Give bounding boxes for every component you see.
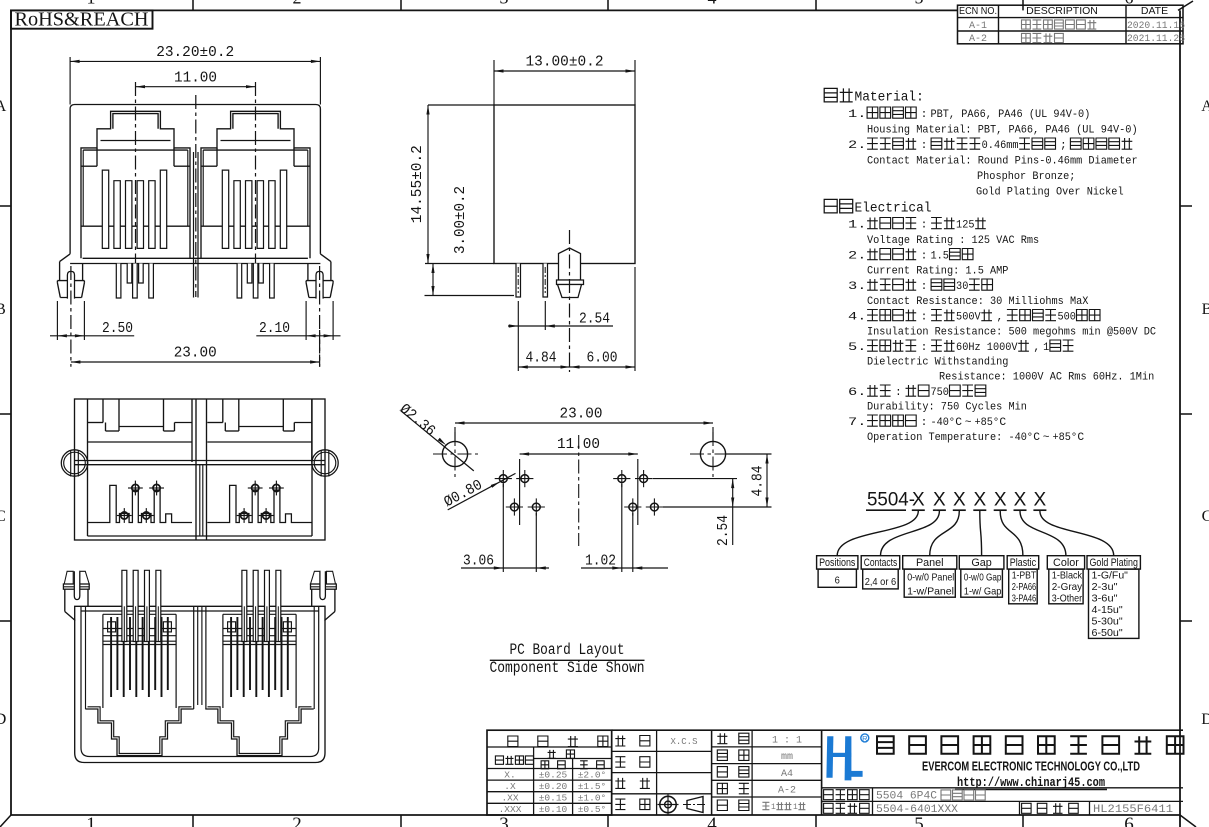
svg-text:X.C.S: X.C.S xyxy=(670,737,697,747)
svg-text:2.: 2. xyxy=(848,140,866,152)
svg-text:6.00: 6.00 xyxy=(587,350,618,367)
svg-text:4.84: 4.84 xyxy=(526,350,557,367)
dim 2.50 xyxy=(56,301,58,340)
svg-text:°C: °C xyxy=(1027,432,1041,444)
svg-text:,: , xyxy=(1033,342,1040,354)
dim 2.10 xyxy=(305,301,307,340)
svg-text:D: D xyxy=(1201,711,1209,728)
option box Gold Plating xyxy=(1087,556,1140,569)
svg-text:2,4 or 6: 2,4 or 6 xyxy=(865,577,897,588)
svg-text:1: 1 xyxy=(86,814,96,827)
svg-text:23.20±0.2: 23.20±0.2 xyxy=(156,44,234,61)
jack opening xyxy=(201,111,310,258)
svg-text::: : xyxy=(921,342,928,354)
svg-text:Voltage Rating : 125 VAC Rms: Voltage Rating : 125 VAC Rms xyxy=(867,235,1039,247)
svg-text:60Hz 1000V: 60Hz 1000V xyxy=(956,342,1018,354)
dim 14.55±0.2 xyxy=(428,104,494,106)
svg-text:Gap: Gap xyxy=(971,557,991,569)
svg-text:3.: 3. xyxy=(848,281,866,293)
svg-text:~: ~ xyxy=(965,417,972,429)
company name xyxy=(877,736,894,753)
svg-text:1.5: 1.5 xyxy=(930,251,949,263)
svg-text:1: 1 xyxy=(793,803,798,812)
svg-text:2.10: 2.10 xyxy=(259,320,290,337)
svg-text:EVERCOM ELECTRONIC TECHNOLOGY: EVERCOM ELECTRONIC TECHNOLOGY CO.,LTD xyxy=(922,760,1140,774)
svg-text:5: 5 xyxy=(915,0,924,8)
svg-text:.X: .X xyxy=(504,781,516,792)
svg-text:0-w/0 Gap: 0-w/0 Gap xyxy=(964,572,1002,583)
svg-text:750: 750 xyxy=(930,387,949,399)
svg-text:A-2: A-2 xyxy=(969,34,987,45)
scale column xyxy=(751,730,753,815)
title block xyxy=(487,730,1184,816)
svg-text::: : xyxy=(921,109,928,121)
option box Positions xyxy=(817,556,858,569)
svg-text:3-PA46: 3-PA46 xyxy=(1012,593,1037,604)
svg-text:2-3u": 2-3u" xyxy=(1092,582,1118,593)
svg-text:Housing Material: PBT, PA66, P: Housing Material: PBT, PA66, PA46 (UL 94… xyxy=(867,125,1138,137)
svg-text:2: 2 xyxy=(293,0,302,8)
svg-text:2021.11.28: 2021.11.28 xyxy=(1127,33,1185,45)
svg-text:PBT, PA66, PA46 (UL 94V-0): PBT, PA66, PA46 (UL 94V-0) xyxy=(930,109,1090,121)
mounting hole left xyxy=(442,441,467,466)
svg-text::: : xyxy=(921,140,928,152)
side view xyxy=(409,54,635,372)
svg-text:5: 5 xyxy=(914,814,924,827)
svg-text:3.00±0.2: 3.00±0.2 xyxy=(452,186,469,254)
svg-text:±0.20: ±0.20 xyxy=(539,781,568,792)
option box Plastic xyxy=(1007,556,1038,569)
svg-text::: : xyxy=(921,312,928,324)
svg-text:1: 1 xyxy=(771,803,776,812)
svg-text:http://www.chinarj45.com: http://www.chinarj45.com xyxy=(957,775,1105,790)
svg-text:Phosphor Bronze;: Phosphor Bronze; xyxy=(977,171,1075,183)
mounting leg xyxy=(59,262,61,281)
svg-text:4: 4 xyxy=(707,814,717,827)
svg-text:11.00: 11.00 xyxy=(174,69,217,86)
svg-text:1: 1 xyxy=(87,0,96,8)
svg-text:0-w/0 Panel: 0-w/0 Panel xyxy=(907,572,954,583)
svg-text::: : xyxy=(921,220,928,232)
dim 2.54 pcb xyxy=(653,478,738,480)
jack opening xyxy=(81,111,190,258)
svg-text:X: X xyxy=(1034,490,1047,511)
board pins xyxy=(516,264,521,298)
svg-text::: : xyxy=(895,387,902,399)
svg-text:1-w/Panel: 1-w/Panel xyxy=(907,586,954,597)
svg-text:2.54: 2.54 xyxy=(715,515,732,546)
svg-text:3: 3 xyxy=(499,814,509,827)
bottom view contact comb xyxy=(88,485,193,522)
rear wire pins xyxy=(122,570,127,641)
option box Color xyxy=(1047,556,1084,569)
svg-text:Dielectric Withstanding: Dielectric Withstanding xyxy=(867,357,1008,369)
svg-text:3.06: 3.06 xyxy=(463,552,494,569)
svg-text:Insulation Resistance: 500 meg: Insulation Resistance: 500 megohms min @… xyxy=(867,327,1156,339)
svg-text:.XX: .XX xyxy=(501,793,518,804)
svg-text:±0.15: ±0.15 xyxy=(539,793,568,804)
svg-text:X: X xyxy=(994,490,1007,511)
svg-text:6: 6 xyxy=(1124,814,1134,827)
svg-text:3-6u": 3-6u" xyxy=(1092,593,1118,604)
dim 3.00±0.2 xyxy=(425,295,515,297)
rear latch xyxy=(64,571,73,584)
leader dia 0.80 xyxy=(448,473,516,510)
svg-text:RoHS&REACH: RoHS&REACH xyxy=(15,10,149,31)
dim 2.54 xyxy=(517,301,519,330)
mounting leg xyxy=(330,262,332,281)
svg-text:X: X xyxy=(953,490,966,511)
svg-text:6: 6 xyxy=(835,576,841,587)
svg-text:2.54: 2.54 xyxy=(579,310,610,327)
svg-text:Durability: 750 Cycles Min: Durability: 750 Cycles Min xyxy=(867,402,1027,414)
option box Panel xyxy=(903,556,957,569)
svg-text:X: X xyxy=(1014,490,1027,511)
company block xyxy=(822,787,1183,789)
svg-text:0.46mm: 0.46mm xyxy=(982,140,1019,152)
svg-text:2.: 2. xyxy=(848,251,866,263)
rear latch xyxy=(327,571,336,584)
dim 23.00 pcb xyxy=(454,427,456,441)
svg-text:6-50u": 6-50u" xyxy=(1092,628,1124,639)
svg-text:5-30u": 5-30u" xyxy=(1092,617,1124,628)
svg-text:-40: -40 xyxy=(930,417,949,429)
svg-text::: : xyxy=(921,417,928,429)
solder tails xyxy=(116,264,121,299)
svg-text:1-w/ Gap: 1-w/ Gap xyxy=(964,586,1002,597)
svg-text:5.: 5. xyxy=(848,342,866,354)
svg-text:Resistance: 1000V AC Rms 60Hz.: Resistance: 1000V AC Rms 60Hz. 1Min xyxy=(939,372,1154,384)
svg-text:4-15u": 4-15u" xyxy=(1092,605,1124,616)
pc board layout xyxy=(396,401,771,572)
svg-text:Current Rating: 1.5 AMP: Current Rating: 1.5 AMP xyxy=(867,266,1009,278)
svg-text:A: A xyxy=(0,98,7,115)
snap-in post xyxy=(559,248,581,280)
svg-text:°C: °C xyxy=(1071,432,1085,444)
svg-text:X: X xyxy=(973,490,986,511)
svg-text:2.50: 2.50 xyxy=(102,320,133,337)
tolerance table xyxy=(487,730,612,815)
ECN revision table xyxy=(958,5,1186,45)
bottom view mounting bosses xyxy=(61,450,87,476)
svg-text:Panel: Panel xyxy=(916,557,944,569)
rear port recess xyxy=(223,613,296,615)
svg-text:1.: 1. xyxy=(848,220,866,232)
svg-text:1.: 1. xyxy=(848,109,866,121)
svg-text:1-G/Fu": 1-G/Fu" xyxy=(1092,570,1129,581)
rear bottom steps xyxy=(85,709,193,756)
rear bottom steps xyxy=(205,709,313,756)
bottom view port cavity steps xyxy=(222,399,224,423)
svg-text:mm: mm xyxy=(781,752,793,763)
svg-text:PC Board Layout: PC Board Layout xyxy=(510,641,625,659)
svg-text:ECN NO.: ECN NO. xyxy=(959,5,997,17)
svg-text:13.00±0.2: 13.00±0.2 xyxy=(526,54,604,71)
caption PC Board Layout xyxy=(490,641,645,677)
svg-text:3-Other: 3-Other xyxy=(1052,593,1083,604)
svg-text:1 : 1: 1 : 1 xyxy=(772,736,802,747)
svg-text:±1.0°: ±1.0° xyxy=(578,793,607,804)
svg-text:500V: 500V xyxy=(956,312,981,324)
svg-text:D: D xyxy=(0,711,6,728)
dim 13.00±0.2 xyxy=(493,60,495,105)
dim 4.84 and 6.00 xyxy=(517,330,519,371)
bottom view contact comb xyxy=(207,485,311,522)
svg-text:±0.5°: ±0.5° xyxy=(578,804,607,815)
svg-text:500: 500 xyxy=(1057,312,1076,324)
svg-text:5504 6P4C: 5504 6P4C xyxy=(876,790,937,802)
svg-text::: : xyxy=(921,251,928,263)
sign-off column xyxy=(612,729,1183,731)
svg-text:1-PBT: 1-PBT xyxy=(1012,570,1036,581)
svg-text:4.84: 4.84 xyxy=(750,466,767,497)
svg-text:°C: °C xyxy=(949,417,963,429)
svg-text:A-2: A-2 xyxy=(778,786,796,797)
svg-text:DESCRIPTION: DESCRIPTION xyxy=(1026,5,1098,17)
dim 23.00 xyxy=(71,361,320,363)
svg-text:~: ~ xyxy=(1043,432,1050,444)
svg-text:A4: A4 xyxy=(781,769,793,780)
svg-text:2-Gray: 2-Gray xyxy=(1052,582,1083,593)
svg-text:,: , xyxy=(996,312,1003,324)
svg-text:°C: °C xyxy=(993,417,1007,429)
mounting hole right xyxy=(700,441,725,466)
svg-text:125: 125 xyxy=(956,220,975,232)
svg-text:;: ; xyxy=(1060,140,1067,152)
svg-text:2: 2 xyxy=(292,814,302,827)
svg-text:.XXX: .XXX xyxy=(499,804,522,815)
svg-text:14.55±0.2: 14.55±0.2 xyxy=(409,145,426,223)
svg-text:5504-: 5504- xyxy=(867,490,915,511)
svg-text:±2.0°: ±2.0° xyxy=(578,769,607,780)
svg-text:Operation Temperature: -40: Operation Temperature: -40 xyxy=(867,432,1027,444)
svg-text:X: X xyxy=(933,490,946,511)
dim 4.84 pcb xyxy=(726,453,772,455)
option box Gap xyxy=(959,556,1004,569)
svg-text:X: X xyxy=(912,490,925,511)
svg-text:1: 1 xyxy=(1043,342,1049,354)
svg-text:+85: +85 xyxy=(1053,432,1072,444)
svg-text:Plastic: Plastic xyxy=(1010,557,1037,569)
svg-text:Positions: Positions xyxy=(819,557,856,569)
product number row xyxy=(824,803,834,813)
svg-text:3: 3 xyxy=(500,0,509,8)
svg-text:Component Side Shown: Component Side Shown xyxy=(490,659,645,677)
pin holes xyxy=(499,475,507,483)
RoHS&REACH label box xyxy=(11,10,153,31)
bottom view port cavity steps xyxy=(102,399,104,423)
svg-text:1-Black: 1-Black xyxy=(1052,570,1083,581)
svg-text:B: B xyxy=(1202,301,1209,318)
svg-text:4.: 4. xyxy=(848,312,866,324)
svg-text:23.00: 23.00 xyxy=(560,406,603,423)
rear port recess xyxy=(103,613,176,615)
svg-text:HL2155F6411: HL2155F6411 xyxy=(1093,804,1173,816)
dim 1.02 xyxy=(621,484,623,572)
product model row xyxy=(824,790,834,800)
projection symbol xyxy=(660,796,676,812)
svg-text:Contact Resistance: 30 Millioh: Contact Resistance: 30 Milliohms MaX xyxy=(867,296,1089,308)
svg-text:7.: 7. xyxy=(848,417,866,429)
dim 3.06 xyxy=(502,484,504,572)
svg-text:Gold Plating: Gold Plating xyxy=(1090,557,1138,569)
svg-text:Color: Color xyxy=(1053,557,1079,569)
HL logo xyxy=(826,736,862,780)
svg-text:Electrical: Electrical xyxy=(855,201,932,217)
svg-text:30: 30 xyxy=(956,281,968,293)
part number 5504-XXXXXXX decoder xyxy=(817,490,1141,640)
svg-text:2-PA66: 2-PA66 xyxy=(1012,582,1037,593)
svg-text:1.02: 1.02 xyxy=(585,552,616,569)
svg-text:Material:: Material: xyxy=(855,90,924,106)
svg-text:4: 4 xyxy=(708,0,717,8)
svg-text:A: A xyxy=(1201,98,1209,115)
svg-text:6.: 6. xyxy=(848,387,866,399)
dim 23.20±0.2 xyxy=(69,57,71,105)
dim 11.00 xyxy=(136,86,256,88)
rear view xyxy=(63,570,336,762)
svg-text:Gold Plating Over Nickel: Gold Plating Over Nickel xyxy=(976,187,1124,199)
svg-text:X.: X. xyxy=(504,769,515,780)
svg-text:±0.10: ±0.10 xyxy=(539,804,568,815)
svg-text:+85: +85 xyxy=(975,417,994,429)
bottom view xyxy=(61,399,338,540)
svg-text:DATE: DATE xyxy=(1141,5,1168,17)
svg-text::: : xyxy=(921,281,928,293)
leader dia 2.36 xyxy=(401,411,474,471)
dim 11.00 pcb xyxy=(519,459,521,525)
svg-text:C: C xyxy=(1202,508,1209,525)
svg-text:23.00: 23.00 xyxy=(174,344,217,361)
svg-text:R: R xyxy=(862,734,868,743)
svg-text:±1.5°: ±1.5° xyxy=(578,781,607,792)
material and electrical specifications text xyxy=(824,88,1156,444)
svg-text:5504-6401XXX: 5504-6401XXX xyxy=(876,804,958,816)
svg-text:±0.25: ±0.25 xyxy=(539,769,568,780)
svg-text:A-1: A-1 xyxy=(969,21,987,32)
front view: dual RJ11 jack xyxy=(50,44,341,367)
svg-text:Contacts: Contacts xyxy=(864,557,898,569)
svg-text:C: C xyxy=(0,508,6,525)
svg-text:B: B xyxy=(0,301,6,318)
svg-text:Contact Material: Round Pins-0: Contact Material: Round Pins-0.46mm Diam… xyxy=(867,156,1138,168)
option box Contacts xyxy=(861,556,900,569)
svg-text:2020.11.16: 2020.11.16 xyxy=(1127,20,1185,32)
